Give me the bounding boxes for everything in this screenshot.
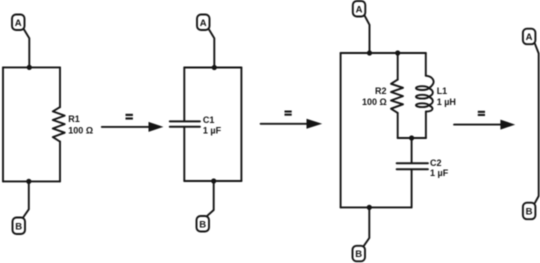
- wire: terminal A to terminal B (section 4): [535, 44, 539, 203]
- svg-text:100 Ω: 100 Ω: [68, 125, 93, 135]
- wire: left side section 3: [340, 53, 342, 207]
- svg-text:R1: R1: [68, 114, 80, 124]
- wire: bottom rail to terminal B: [23, 181, 29, 217]
- wire: left side lower lead (section 2): [183, 128, 185, 181]
- wire: right side upper lead: [59, 67, 61, 107]
- wire: bottom rail to terminal B (section 3): [364, 207, 370, 246]
- svg-text:B: B: [526, 207, 533, 218]
- svg-text:A: A: [200, 18, 207, 29]
- terminal B (section 2): [197, 216, 210, 232]
- wire: RL bottom rail: [398, 137, 426, 139]
- svg-text:1 µF: 1 µF: [430, 168, 449, 178]
- terminal A (section 4): [523, 29, 536, 45]
- wire: right side lower lead: [59, 142, 61, 182]
- terminal A (section 3): [353, 1, 366, 17]
- arrow 3: [454, 120, 515, 130]
- terminal B (section 3): [353, 246, 366, 261]
- svg-text:B: B: [355, 249, 362, 260]
- wire: left side upper lead (section 2): [183, 68, 185, 121]
- wire: top rail section 1: [3, 66, 60, 68]
- capacitor C2: [397, 163, 428, 169]
- svg-text:C2: C2: [430, 158, 442, 168]
- resistor R2: [391, 80, 403, 113]
- wire: right side section 2: [240, 68, 242, 182]
- wire: top rail section 3: [341, 52, 426, 54]
- wire: terminal A pin to top rail: [24, 30, 29, 68]
- svg-text:B: B: [15, 221, 22, 232]
- inductor L1: [416, 76, 434, 112]
- arrow 2: [261, 119, 323, 129]
- wire: terminal A pin to top rail (section 3): [365, 16, 370, 53]
- svg-text:A: A: [356, 4, 363, 15]
- wire: top rail section 2: [184, 67, 241, 69]
- junction node (bottom, section 1): [26, 179, 31, 184]
- wire: left side section 1: [2, 67, 4, 181]
- wire: terminal A pin to top rail (section 2): [209, 30, 214, 68]
- terminal A (section 2): [197, 15, 210, 31]
- svg-text:C1: C1: [203, 115, 215, 125]
- junction node (bottom, section 2): [211, 178, 216, 183]
- svg-text:R2: R2: [375, 86, 387, 96]
- junction node (top, section 2): [212, 65, 217, 70]
- junction node (terminal B tap, section 3): [367, 205, 372, 210]
- svg-text:1 µH: 1 µH: [437, 97, 456, 107]
- svg-text:L1: L1: [437, 86, 448, 96]
- wire: L1 branch upper lead: [425, 53, 427, 76]
- wire: R2 branch upper lead: [397, 53, 399, 80]
- svg-text:B: B: [199, 219, 206, 230]
- wire: bottom rail section 1: [3, 180, 60, 182]
- wire: bottom rail section 3: [341, 206, 412, 208]
- wire: bottom rail section 2: [184, 180, 241, 182]
- wire: C2 lower lead: [411, 170, 413, 207]
- resistor R1: [53, 107, 65, 141]
- wire: C2 upper lead: [411, 138, 413, 162]
- terminal B (section 1): [13, 218, 26, 235]
- svg-text:100 Ω: 100 Ω: [362, 97, 387, 107]
- svg-text:A: A: [15, 18, 22, 29]
- svg-text:1 µF: 1 µF: [203, 126, 222, 136]
- equals sign 1: [126, 114, 133, 120]
- terminal B (section 4): [523, 203, 536, 220]
- wire: L1 branch lower lead: [425, 112, 427, 138]
- svg-text:A: A: [526, 32, 533, 43]
- wire: R2 branch lower lead: [397, 113, 399, 138]
- junction node (C2 tap): [409, 135, 414, 140]
- terminal A (section 1): [12, 15, 25, 31]
- equals sign 2: [285, 111, 292, 116]
- junction node (terminal A tap, section 3): [367, 50, 372, 55]
- junction node (top, section 1): [27, 65, 32, 70]
- equals sign 3: [478, 111, 485, 116]
- junction node (R2 branch top): [395, 50, 400, 55]
- wire: bottom rail to terminal B (section 2): [207, 181, 214, 216]
- capacitor C1: [170, 121, 200, 126]
- arrow 1: [102, 122, 164, 132]
